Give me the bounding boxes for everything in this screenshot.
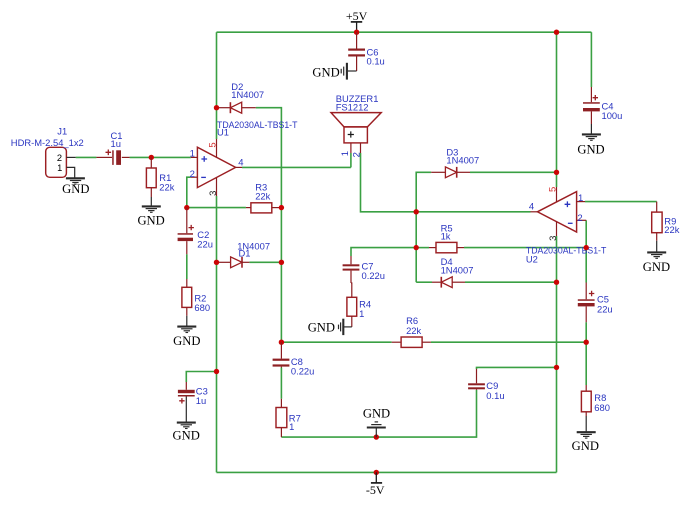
capacitor C1: [96, 150, 129, 165]
svg-text:1N4007: 1N4007: [441, 265, 474, 276]
capacitor C7: [343, 256, 360, 283]
resistor R6: [392, 337, 431, 347]
resistor R7: [276, 399, 287, 437]
svg-text:1u: 1u: [111, 138, 121, 149]
wire C6 to ground: [348, 70, 357, 72]
wire D1 row right: [249, 261, 281, 263]
U1 pin 1 stub: [191, 156, 198, 158]
svg-text:FS1212: FS1212: [336, 101, 369, 112]
ground symbol at C6 (horizontal): [341, 63, 347, 80]
wire U2 pin2 corner down to R5 row: [585, 220, 587, 247]
svg-text:22k: 22k: [664, 224, 679, 235]
buzzer pin 1 stub: [350, 143, 352, 153]
resistor R2: [182, 279, 192, 316]
capacitor C8: [273, 342, 290, 367]
wire D4 row right: [465, 281, 557, 283]
wire C1 to U1 pin1: [130, 156, 191, 158]
wire right column C9 row to D4 row: [556, 282, 558, 367]
wire buzzer pin1 down to U1 out row: [350, 153, 352, 167]
svg-text:GND: GND: [643, 260, 670, 274]
ground symbol at C4: [582, 134, 601, 140]
svg-text:U1: U1: [217, 126, 229, 137]
svg-text:TDA2030AL-TBS1-T: TDA2030AL-TBS1-T: [217, 119, 298, 130]
svg-text:+5V: +5V: [346, 9, 368, 23]
wire C4 to ground: [590, 124, 592, 134]
resistor R4: [347, 283, 357, 327]
node junction R3 right on feedback column: [279, 205, 284, 210]
svg-text:U2: U2: [526, 253, 538, 264]
resistor R9: [652, 202, 662, 241]
svg-text:J1: J1: [57, 126, 67, 137]
svg-text:680: 680: [594, 402, 610, 413]
svg-text:GND: GND: [308, 320, 335, 334]
wire R1 to ground: [150, 197, 152, 206]
svg-text:22k: 22k: [406, 325, 421, 336]
node junction R7 row / GND: [374, 434, 379, 439]
buzzer plus mark: [348, 131, 354, 137]
wire D3 row junction down to U2 pin5: [556, 172, 558, 187]
svg-text:1N4007: 1N4007: [446, 155, 479, 166]
wire R8 to ground: [585, 416, 587, 432]
resistor R1: [146, 157, 156, 197]
node junction C1/R1/U1: [149, 155, 154, 160]
svg-text:GND: GND: [137, 213, 164, 227]
wire R6 row right: [431, 341, 586, 343]
svg-text:100u: 100u: [602, 110, 623, 121]
U2 pin 3 stub: [556, 222, 558, 236]
wire C5 bottom to R6 row: [585, 322, 587, 342]
node junction D2 anode on U1 pin5 column: [214, 105, 219, 110]
svg-text:5: 5: [548, 187, 559, 192]
node junction D3 cathode / U2 pin5 column: [554, 170, 559, 175]
svg-text:-5V: -5V: [366, 483, 385, 497]
wire R2 to ground: [186, 316, 188, 326]
wire U1 pin3 column down: [216, 196, 218, 472]
wire C7 corner to R5 row junction: [351, 248, 416, 256]
ground symbol at C3: [177, 423, 196, 429]
op-amp U1: [191, 139, 242, 196]
node junction R5 / C7 / D4 column: [414, 245, 419, 250]
wire C5 column top: [585, 248, 587, 283]
wire right column D4 row to U2 pin3: [556, 236, 558, 282]
wire C3 row: [186, 372, 216, 383]
wire J1 pin2 to C1: [76, 156, 97, 158]
node junction top rail / D3 column: [554, 30, 559, 35]
svg-text:0.1u: 0.1u: [367, 56, 385, 67]
svg-text:GND: GND: [173, 429, 200, 443]
wire R5 row right to C5 column: [464, 247, 586, 249]
ground symbol at R9: [647, 252, 666, 258]
node junction D4 cathode / U2 pin3 column: [554, 280, 559, 285]
svg-text:680: 680: [194, 302, 210, 313]
svg-text:2: 2: [351, 152, 362, 157]
wire C3 to ground: [185, 397, 187, 423]
buzzer BUZZER1: [331, 113, 381, 143]
wire R9 to ground: [656, 241, 658, 252]
svg-text:1N4007: 1N4007: [231, 89, 264, 100]
node junction C8 / R6 row: [279, 340, 284, 345]
svg-text:22k: 22k: [255, 190, 270, 201]
svg-text:0.22u: 0.22u: [362, 270, 385, 281]
J1 pin 2 stub: [66, 156, 75, 158]
resistor R5: [429, 242, 464, 252]
svg-text:22u: 22u: [597, 304, 613, 315]
node junction D1 anode on U1 pin3 column: [214, 260, 219, 265]
ground symbol at R2: [177, 327, 196, 333]
resistor R8: [581, 385, 591, 416]
wire R4 to ground: [344, 326, 352, 328]
wire D4 row left: [416, 281, 432, 283]
wire buzzer pin2 down to U2 out row: [361, 153, 531, 212]
svg-text:1: 1: [359, 308, 364, 319]
capacitor C4: [583, 87, 600, 124]
U1 minus input mark: [201, 176, 206, 178]
svg-text:22u: 22u: [197, 238, 213, 249]
wire U1 pin2 corner: [187, 177, 191, 207]
U2 pin 4 output stub: [531, 211, 538, 213]
ground symbol at J1 pin1: [66, 178, 85, 184]
wire R6 row junction down to R8: [585, 342, 587, 385]
wire U1 output to buzzer pin1: [242, 166, 351, 168]
diode D4: [432, 277, 465, 288]
svg-text:GND: GND: [312, 65, 339, 79]
connector J1 body: [46, 147, 67, 177]
capacitor C5: [578, 283, 595, 323]
wire D3 row right: [470, 171, 557, 173]
diode D2: [219, 102, 256, 113]
svg-text:22k: 22k: [159, 181, 174, 192]
wire R7 bottom row to C9: [281, 390, 476, 437]
svg-text:GND: GND: [62, 182, 89, 196]
buzzer pin 2 stub: [360, 143, 362, 153]
wire +5V top rail: [217, 31, 592, 33]
U2 pin 2 stub: [577, 219, 587, 221]
svg-text:1: 1: [289, 421, 294, 432]
wire R3 row left: [187, 207, 246, 209]
node junction +5V rail / C6: [354, 30, 359, 35]
wire top rail down to C4: [590, 32, 592, 87]
svg-text:HDR-M-2.54_1x2: HDR-M-2.54_1x2: [11, 137, 84, 148]
U2 pin 1 stub: [577, 201, 585, 203]
svg-text:GND: GND: [173, 334, 200, 348]
ground symbol at R7 row (inverted): [367, 422, 386, 437]
U2 plus input mark: [565, 201, 571, 207]
capacitor C2: [178, 208, 194, 255]
capacitor C6: [348, 32, 365, 71]
op-amp U2: [531, 187, 587, 236]
-5V power symbol: [371, 472, 382, 483]
wire C9 top corner to right column: [477, 367, 557, 369]
wire R6 row left: [281, 341, 391, 343]
node junction R6 row / C5 / R8: [584, 340, 589, 345]
U1 pin 3 stub: [216, 178, 218, 196]
U1 pin 2 stub: [191, 176, 198, 178]
node junction C9 / U2 pin3 column: [554, 365, 559, 370]
svg-text:2: 2: [577, 213, 582, 224]
diode D3: [431, 167, 470, 178]
wire right column bottom rail to C9 row: [556, 367, 558, 472]
wire D3 row left corner: [416, 172, 431, 212]
capacitor C3: [178, 382, 195, 404]
U1 pin 4 output stub: [236, 166, 242, 168]
ground symbol at R8: [577, 432, 596, 438]
diode D1: [219, 257, 249, 268]
svg-text:1k: 1k: [441, 231, 451, 242]
wire U2 pin1 row: [585, 201, 657, 203]
svg-text:D1: D1: [239, 248, 251, 259]
node junction U2 pin2 / R5 row / C5: [584, 245, 589, 250]
svg-text:1: 1: [57, 163, 62, 173]
svg-text:4: 4: [238, 157, 243, 168]
resistor R3: [246, 203, 282, 213]
svg-text:GND: GND: [363, 406, 390, 420]
U2 pin 5 stub: [556, 187, 558, 202]
ground symbol at R1: [142, 206, 161, 212]
svg-text:0.22u: 0.22u: [291, 366, 314, 377]
wire left column top rail to U1 pin5: [216, 32, 218, 139]
svg-text:4: 4: [529, 201, 534, 212]
svg-text:0.1u: 0.1u: [486, 390, 504, 401]
node junction U2 output / feedback column: [414, 209, 419, 214]
wire D2 feedback column: [256, 108, 282, 343]
svg-text:2: 2: [190, 169, 195, 180]
wire feedback column U2 out to R5 row: [415, 212, 417, 248]
svg-text:5: 5: [208, 142, 219, 147]
wire feedback column R5 row to D4 row: [415, 248, 417, 283]
U2 minus input mark: [568, 222, 573, 224]
wire right column top rail to D3 row: [556, 32, 558, 172]
wire C2 to R2: [186, 254, 188, 279]
node junction C3 branch: [214, 369, 219, 374]
+5V power symbol: [351, 22, 362, 32]
svg-text:3: 3: [548, 236, 559, 241]
svg-text:2: 2: [57, 153, 62, 163]
svg-text:1u: 1u: [196, 395, 206, 406]
capacitor C9: [468, 369, 485, 390]
node junction -5V rail: [374, 470, 379, 475]
svg-text:1: 1: [578, 193, 583, 204]
wire bottom -5V rail: [217, 471, 557, 473]
svg-text:GND: GND: [572, 439, 599, 453]
node junction D1 cathode on feedback column: [279, 260, 284, 265]
svg-text:1: 1: [190, 148, 195, 159]
ground symbol at R4 (horizontal): [339, 319, 344, 335]
U1 pin 5 stub: [216, 139, 218, 158]
svg-text:3: 3: [208, 191, 219, 196]
J1 pin 1 stub to ground: [66, 167, 74, 177]
wire R5 left stub green: [416, 247, 429, 249]
wire C8 to R7: [280, 368, 282, 399]
svg-text:1: 1: [340, 151, 351, 156]
svg-text:TDA2030AL-TBS1-T: TDA2030AL-TBS1-T: [526, 245, 607, 256]
U1 plus input mark: [201, 156, 207, 162]
svg-text:GND: GND: [577, 143, 604, 157]
node junction U1 pin2 / R3 / C2: [184, 205, 189, 210]
